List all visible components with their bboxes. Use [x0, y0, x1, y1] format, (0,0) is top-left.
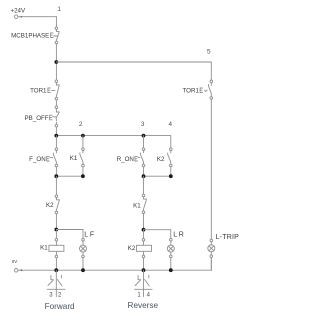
lamp L F [80, 231, 95, 270]
wire branch to lamp R [144, 230, 171, 239]
wire branch to right rail [56, 61, 211, 63]
junction [54, 174, 58, 178]
svg-text:5: 5 [207, 48, 211, 55]
wire [55, 214, 57, 230]
wire [55, 44, 57, 80]
svg-text:L F: L F [84, 231, 94, 238]
svg-text:K1: K1 [40, 245, 48, 252]
wire bottom rail [18, 269, 211, 271]
contact TOR1 (left) [30, 80, 59, 100]
svg-text:3: 3 [141, 121, 145, 128]
connector Forward pins 3,2 [45, 270, 75, 311]
svg-text:F_ON: F_ON [29, 156, 46, 163]
connector Reverse pins 1,4 [128, 270, 159, 310]
wire stubs [56, 136, 143, 148]
junction [169, 268, 173, 272]
junction [54, 134, 58, 138]
wire right rail to bottom rail [210, 257, 212, 270]
junction [54, 268, 58, 272]
terminal +24V [14, 15, 18, 19]
junction lamp F branch [54, 228, 58, 232]
svg-text:1: 1 [137, 293, 141, 299]
svg-text:TOR1: TOR1 [30, 88, 47, 95]
junction [142, 268, 146, 272]
svg-text:Forward: Forward [45, 302, 75, 311]
junction node 3 [142, 134, 146, 138]
wire branch to lamp F [56, 230, 83, 239]
wire to coil K1 [55, 230, 57, 239]
svg-text:PB_OFF: PB_OFF [25, 115, 49, 122]
wire [55, 100, 57, 106]
lamp L-TRIP [208, 234, 239, 270]
wire right rail down [210, 62, 212, 80]
coil K2 [128, 239, 152, 271]
wire [143, 214, 145, 230]
svg-text:MCB1PHASE: MCB1PHASE [11, 33, 49, 40]
svg-text:K2: K2 [157, 156, 165, 163]
contact K2 NC interlock [46, 195, 59, 214]
svg-text:2: 2 [79, 121, 83, 128]
wire parallel join reverse [144, 167, 171, 176]
wire top feed [18, 16, 56, 18]
wire to coil K2 [143, 230, 145, 239]
svg-text:K2: K2 [128, 245, 136, 252]
pushbutton R_ON [117, 148, 145, 167]
junction node 2 [81, 134, 85, 138]
svg-text:+24V: +24V [11, 8, 26, 15]
svg-text:3: 3 [49, 293, 53, 299]
contact K1 NC interlock [133, 194, 146, 213]
junction node 1->5 branch [54, 60, 58, 64]
terminal 0V [14, 269, 18, 273]
contact TOR1 (right) [183, 80, 213, 99]
junction [81, 174, 85, 178]
svg-text:Reverse: Reverse [128, 301, 159, 310]
wire right rail [210, 99, 212, 239]
svg-text:4: 4 [169, 121, 173, 128]
junction lamp R branch [142, 228, 146, 232]
junction [81, 268, 85, 272]
coil K1 [40, 239, 64, 271]
wire parallel join forward [56, 167, 83, 176]
svg-text:1: 1 [57, 6, 61, 13]
wire down to MCB [55, 17, 57, 27]
pushbutton PB_OFF [25, 106, 60, 127]
svg-text:TOR1: TOR1 [183, 88, 200, 95]
svg-text:2: 2 [58, 293, 62, 299]
contact K2 (latch NO) [157, 148, 172, 167]
wire rung node 2-3-4 [56, 136, 170, 148]
wire [55, 127, 57, 136]
pushbutton F_ON [29, 148, 58, 167]
svg-text:L R: L R [173, 231, 184, 238]
svg-text:0V: 0V [12, 259, 18, 264]
svg-text:4: 4 [147, 293, 151, 299]
svg-text:R_ON: R_ON [117, 156, 134, 163]
lamp L R [167, 231, 184, 270]
junction [169, 174, 173, 178]
svg-text:K2: K2 [46, 202, 54, 209]
svg-text:K1: K1 [70, 155, 78, 162]
breaker MCB1PHASE [11, 27, 59, 44]
contact K1 (latch NO) [70, 148, 85, 167]
svg-text:L-TRIP: L-TRIP [216, 234, 239, 241]
wire [143, 176, 145, 194]
junction [142, 174, 146, 178]
wire [55, 176, 57, 195]
svg-text:K1: K1 [133, 202, 141, 209]
